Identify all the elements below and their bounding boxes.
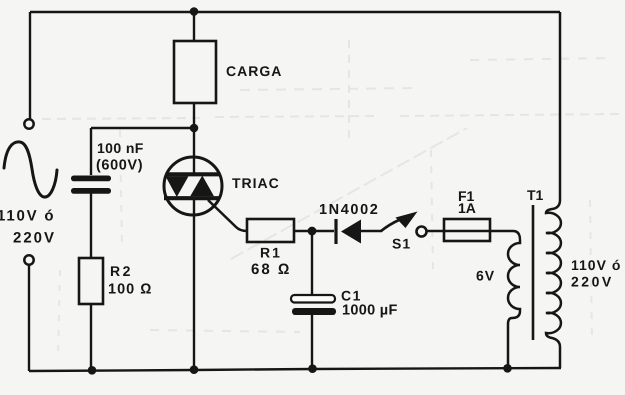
svg-text:110V ó: 110V ó — [0, 208, 55, 225]
T1 core — [532, 205, 535, 340]
wire CARGA top lead — [193, 12, 195, 41]
terminal lower left — [24, 255, 33, 264]
svg-text:1000 µF: 1000 µF — [342, 303, 398, 319]
resistor R1 68 ohm — [247, 219, 294, 278]
svg-text:220V: 220V — [571, 274, 614, 290]
T1 primary winding 6V — [508, 240, 520, 369]
T1 secondary winding — [546, 12, 561, 368]
triac TRIAC — [164, 157, 280, 216]
wire TRIAC MT1 to bottom rail — [193, 215, 195, 370]
svg-text:1A: 1A — [458, 200, 476, 216]
svg-text:100 Ω: 100 Ω — [108, 282, 152, 298]
diode 1N4002 — [319, 202, 379, 244]
wire switch terminal through fuse to transformer — [427, 230, 513, 232]
svg-text:R1: R1 — [260, 245, 282, 261]
load CARGA — [174, 41, 282, 103]
svg-text:S1: S1 — [392, 236, 411, 252]
svg-text:100 nF: 100 nF — [97, 140, 144, 156]
resistor R2 100 ohm — [79, 258, 152, 371]
wire bottom rail — [29, 368, 561, 371]
junction node TRIAC bottom rail — [190, 365, 199, 374]
fuse F1 1A — [444, 188, 490, 241]
wire node to C1 — [311, 231, 313, 294]
wire TRIAC gate — [208, 200, 247, 231]
junction node MT2 / snubber branch — [190, 124, 199, 133]
svg-text:(600V): (600V) — [96, 158, 143, 174]
junction node R1 / D1 / C1 — [308, 227, 317, 236]
junction node top rail / CARGA — [190, 7, 199, 16]
wire top rail — [30, 11, 560, 13]
svg-text:CARGA: CARGA — [226, 63, 282, 79]
capacitor C1 1000uF — [291, 288, 398, 370]
svg-text:TRIAC: TRIAC — [232, 175, 280, 191]
svg-text:6V: 6V — [476, 268, 495, 284]
wire snubber branch horizontal — [91, 127, 194, 129]
svg-text:110V ó: 110V ó — [571, 257, 621, 273]
svg-text:C1: C1 — [341, 288, 362, 304]
wire left vertical (lower terminal to bottom rail) — [28, 265, 30, 371]
wire diode to switch pivot — [361, 230, 381, 232]
junction node primary bottom rail — [503, 364, 512, 373]
wire R1 to node — [294, 230, 334, 232]
wire CARGA bottom lead to TRIAC — [193, 103, 195, 158]
svg-text:220V: 220V — [13, 230, 56, 247]
transformer T1 — [476, 12, 621, 369]
wire fuse to transformer primary (curl) — [513, 231, 520, 240]
wire left vertical (top rail to upper terminal) — [29, 12, 31, 119]
svg-text:1N4002: 1N4002 — [319, 202, 379, 218]
terminal upper left — [24, 119, 33, 128]
junction node R2 bottom rail — [88, 366, 97, 375]
svg-text:T1: T1 — [527, 187, 544, 203]
junction node C1 bottom rail — [308, 364, 317, 373]
svg-text:68 Ω: 68 Ω — [251, 261, 291, 278]
AC source sine wave — [4, 142, 57, 197]
svg-text:R2: R2 — [110, 263, 133, 279]
capacitor 100nF (600V) — [71, 128, 144, 258]
label 110V ó 220V (left input) — [0, 208, 56, 247]
switch S1 — [381, 212, 427, 252]
